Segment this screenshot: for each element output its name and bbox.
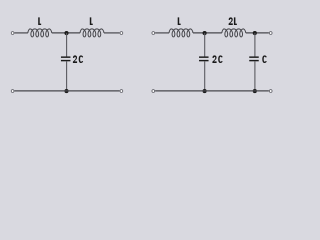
terminal port 1 top-left [152, 32, 155, 35]
wire bottom rail [155, 90, 269, 92]
label C [262, 55, 266, 63]
node junction bottom A [203, 89, 207, 93]
capacitor C2 (2C) plate bottom [199, 60, 209, 62]
wire C2 (2C) upper lead [204, 33, 206, 57]
terminal port 2 top-right [269, 32, 272, 35]
terminal port 1 bottom-left [11, 90, 14, 93]
wire C3 (C) upper lead [254, 33, 256, 57]
terminal port 2 bottom-right [120, 90, 123, 93]
inductor L3 [169, 29, 193, 37]
label L of inductor L2 [90, 17, 93, 25]
capacitor C3 (C) plate top [249, 56, 259, 58]
inductor 2L [222, 29, 246, 37]
wire C1 (2C) lower lead [66, 61, 68, 91]
terminal port 1 top-left [11, 32, 14, 35]
wire [52, 32, 80, 34]
wire [193, 32, 222, 34]
label L of inductor L3 [178, 17, 181, 25]
label 2L of inductor [229, 17, 233, 25]
node junction top B [253, 31, 257, 35]
wire [155, 32, 169, 34]
inductor L1 [28, 29, 52, 37]
terminal port 2 bottom-right [269, 90, 272, 93]
label 2C [73, 55, 77, 63]
terminal port 1 bottom-left [152, 90, 155, 93]
capacitor C1 (2C) plate top [61, 56, 70, 58]
terminal port 2 top-right [120, 32, 123, 35]
wire [14, 32, 28, 34]
inductor L2 [80, 29, 104, 37]
node junction top A [203, 31, 207, 35]
node junction bottom B [253, 89, 257, 93]
wire C1 (2C) upper lead [66, 33, 68, 57]
capacitor C2 (2C) plate top [199, 56, 209, 58]
wire C2 (2C) lower lead [204, 61, 206, 91]
capacitor C1 (2C) plate bottom [61, 60, 70, 62]
wire [246, 32, 269, 34]
wire bottom rail [14, 90, 119, 92]
node junction top [64, 31, 68, 35]
wire [104, 32, 120, 34]
node junction bottom [64, 89, 68, 93]
wire C3 (C) lower lead [254, 61, 256, 91]
capacitor C3 (C) plate bottom [249, 60, 259, 62]
label 2C [212, 55, 216, 63]
label L of inductor L1 [38, 17, 41, 25]
